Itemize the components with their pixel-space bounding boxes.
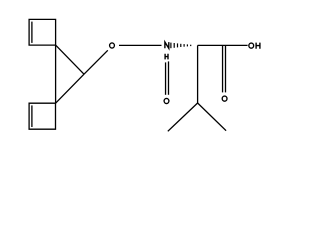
bond stereocenter down to isopropyl CH <box>197 45 199 103</box>
bond stereocenter to carboxyl carbon continuing to OH <box>198 44 248 46</box>
cyclobutene ring top (square) <box>29 19 55 45</box>
isopropyl right methyl bond <box>198 103 227 131</box>
bond O to N <box>119 44 162 46</box>
hashed wedge bond N to stereocenter <box>171 43 191 49</box>
cyclopropane lower bond <box>56 74 84 103</box>
atom label H of OH <box>256 43 260 49</box>
cyclopropane upper bond <box>56 45 84 74</box>
atom label H on N <box>165 54 168 60</box>
double bond N=O line 2 <box>168 61 170 94</box>
cyclobutene ring bottom (square) <box>29 103 55 129</box>
isopropyl left methyl bond <box>168 103 198 131</box>
atom label O of OH <box>249 43 254 48</box>
atom label N <box>165 42 169 48</box>
cyclopropane shared vertical edge <box>55 45 57 103</box>
double bond inner line, top cyclobutene <box>31 22 33 43</box>
atom label O (ether) <box>110 43 115 48</box>
double bond C=O line 1 <box>222 45 224 92</box>
atom label O (carboxyl) <box>222 96 227 101</box>
double bond inner line, bottom cyclobutene <box>31 105 33 127</box>
double bond N=O line 1 <box>165 62 167 94</box>
double bond C=O line 2 <box>225 45 227 92</box>
bond cyclopropane to ether O <box>84 50 108 74</box>
atom label O (N-oxide) <box>164 98 169 103</box>
